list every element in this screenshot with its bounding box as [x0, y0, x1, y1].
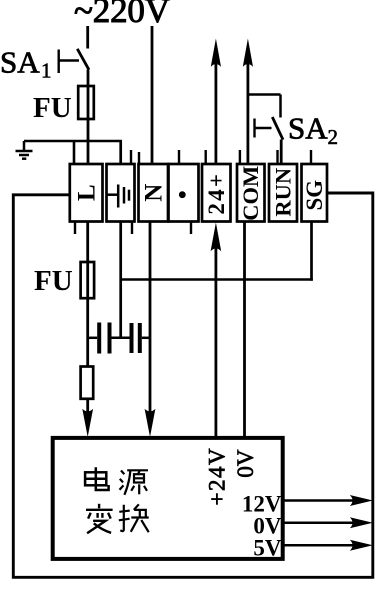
svg-text:SG: SG [302, 180, 327, 211]
switch SA1 blade [77, 49, 89, 70]
terminal N cell [139, 164, 169, 222]
terminal dot cell [169, 164, 199, 222]
label yuan (source) [120, 470, 149, 495]
svg-text:2: 2 [328, 125, 339, 149]
capacitor C1-C2 link [112, 337, 130, 340]
wire L terminal down [86, 222, 89, 413]
arrow L into power box [82, 409, 93, 437]
ground symbol [16, 141, 33, 159]
wire SG horizontal to PE wire [120, 278, 313, 281]
label huan (convert) [119, 504, 149, 532]
fuse FU2 [81, 262, 95, 298]
svg-text:+24V: +24V [204, 447, 229, 506]
svg-text:L: L [73, 184, 100, 201]
terminal block tabs above [131, 150, 311, 164]
wire COM up with arrow [246, 62, 249, 164]
svg-text:5V: 5V [253, 536, 282, 561]
label bian (change) [86, 504, 113, 534]
svg-text:SA: SA [288, 111, 328, 146]
wire SA1 to FU1 [87, 70, 90, 164]
terminal PE cell [107, 164, 135, 222]
arrow N into power box [145, 409, 156, 437]
terminal L cell [70, 164, 103, 222]
svg-text:FU: FU [33, 92, 72, 124]
wire 24+ up with arrow [214, 62, 217, 164]
wire 12V output arrow [283, 499, 355, 502]
terminal RUN cell [269, 164, 297, 222]
svg-text:N: N [141, 184, 168, 202]
wire drop to PE terminal [119, 141, 122, 164]
wire 5V output arrow [283, 544, 355, 547]
terminal block tabs below [75, 221, 191, 234]
wire ground horizontal to PE terminal [24, 140, 122, 143]
wire 0V output arrow [283, 522, 355, 525]
capacitor C1 [88, 337, 98, 340]
wire N phase down from 220V [151, 26, 154, 164]
wire tab drop to L terminal [73, 141, 76, 164]
wire N terminal down [149, 222, 152, 413]
wire COM down to power box [243, 222, 246, 439]
label dian (electric) [85, 467, 109, 490]
wire SA2 branch horizontal [248, 93, 281, 96]
svg-text:1: 1 [41, 59, 52, 83]
wire L phase down from 220V [86, 26, 89, 49]
switch SA1 actuator [59, 50, 79, 74]
wire SA2 to RUN terminal [280, 140, 283, 165]
terminal COM cell [237, 164, 265, 222]
arrow 24+ up into terminal [211, 223, 222, 252]
frame outer [13, 193, 373, 577]
wire PE terminal down to capacitor midpoint [119, 222, 122, 339]
switch SA2 actuator [255, 119, 272, 138]
power box [53, 438, 283, 559]
svg-text:0V: 0V [233, 449, 258, 478]
svg-text:SA: SA [0, 45, 40, 80]
svg-text:FU: FU [34, 265, 73, 297]
fuse FU1 [78, 86, 94, 119]
resistor R1 [81, 367, 94, 399]
wire SG terminal down [310, 222, 313, 281]
svg-text:~220V: ~220V [74, 0, 170, 30]
wire 24+ down to power box [214, 246, 217, 438]
switch SA2 blade [272, 117, 283, 140]
svg-text:24+: 24+ [204, 172, 229, 215]
wire SA2 branch vertical [279, 95, 282, 118]
terminal 24+ cell [202, 164, 231, 222]
svg-text:COM: COM [238, 166, 263, 221]
terminal SG cell [302, 164, 328, 222]
svg-text:RUN: RUN [270, 168, 295, 217]
ground symbol in PE cell [106, 185, 129, 208]
capacitor C2 [130, 323, 134, 353]
